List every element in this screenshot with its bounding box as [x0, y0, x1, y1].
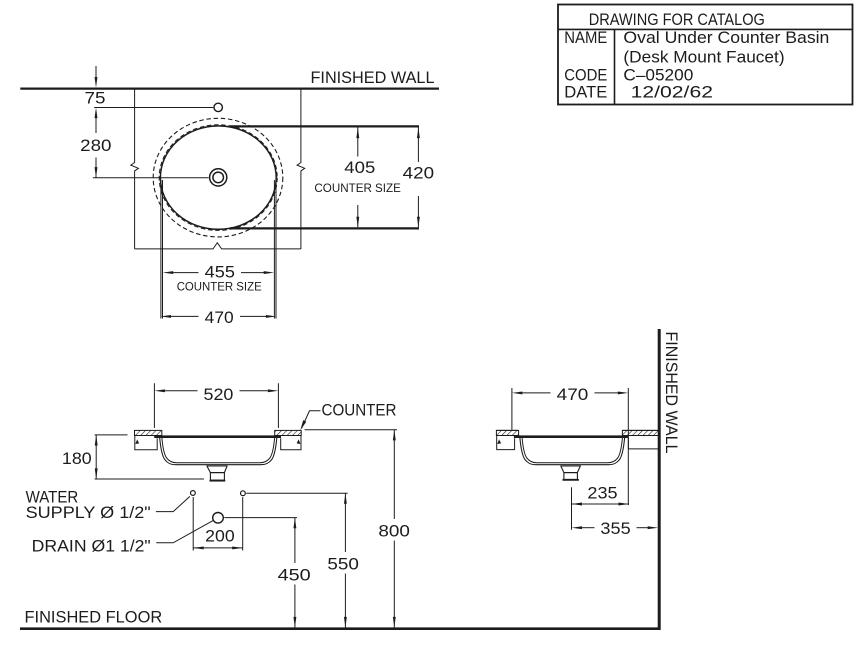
counter right section (side view) hatch [622, 430, 659, 435]
svg-text:SUPPLY Ø 1/2": SUPPLY Ø 1/2" [26, 504, 151, 522]
drain fitting body (side view) [564, 473, 578, 480]
svg-text:(Desk Mount Faucet): (Desk Mount Faucet) [623, 49, 784, 67]
svg-text:FINISHED WALL: FINISHED WALL [662, 332, 680, 454]
wall line (plan view, top) [20, 87, 439, 89]
counter outline left edge with break [131, 89, 139, 249]
svg-text:COUNTER SIZE: COUNTER SIZE [177, 282, 262, 294]
title block box [558, 5, 853, 105]
counter outline right edge with break [297, 89, 305, 249]
title block header divider [558, 28, 853, 30]
svg-text:200: 200 [205, 526, 235, 545]
dimension 420 [403, 128, 434, 228]
drain circle (plan) [210, 169, 227, 186]
dimension 470 (plan) [161, 308, 277, 327]
dimension 235 extension line [571, 487, 573, 530]
counter underside at wall (side view) [628, 438, 659, 449]
counter left section (front view) hatch [135, 430, 162, 435]
drain leader line [156, 521, 213, 543]
dimension 455 [163, 263, 275, 294]
svg-text:455: 455 [205, 263, 235, 282]
counter outline bottom edge with break [135, 243, 301, 249]
drain fitting body (front view) [210, 473, 224, 481]
svg-text:FINISHED FLOOR: FINISHED FLOOR [25, 609, 163, 627]
drain fitting collar (side view) [560, 466, 581, 473]
basin rim solid ellipse [160, 126, 276, 229]
dimension 470 (side) extension lines [511, 388, 513, 430]
svg-text:75: 75 [85, 89, 106, 108]
svg-text:Oval Under Counter Basin: Oval Under Counter Basin [623, 29, 829, 47]
svg-text:470: 470 [557, 385, 589, 404]
basin rim flange (front view) [154, 435, 281, 438]
dimension 180 extension lines [95, 434, 128, 436]
water supply hole left [191, 491, 196, 496]
faucet centre extension line [94, 107, 213, 109]
dimension 800 extension line [305, 429, 397, 431]
svg-text:520: 520 [204, 385, 234, 404]
counter left edge profile (front view) [135, 436, 157, 450]
svg-text:420: 420 [403, 164, 434, 183]
faucet hole circle [214, 103, 222, 111]
dimension 800 [378, 430, 410, 628]
counter top line (side view) [496, 429, 518, 431]
svg-text:DATE: DATE [564, 83, 607, 101]
dimension 550 extension line [246, 492, 347, 494]
dimension 520 extension lines [153, 383, 155, 428]
svg-text:C–05200: C–05200 [623, 67, 693, 85]
basin bowl outer wall (side view) [520, 438, 625, 465]
basin bowl outer wall (front view) [160, 438, 277, 465]
water supply hole right [241, 491, 246, 496]
svg-text:180: 180 [62, 449, 92, 468]
counter right section (front view) hatch [275, 430, 302, 435]
drain fitting collar (front view) [206, 466, 227, 473]
svg-text:COUNTER SIZE: COUNTER SIZE [314, 183, 401, 195]
basin bowl inner wall (front view) [162, 438, 275, 463]
svg-text:COUNTER: COUNTER [322, 402, 397, 420]
counter left section (side view) hatch [496, 430, 518, 435]
svg-text:800: 800 [378, 521, 410, 540]
dimension 355 [572, 519, 659, 538]
drain hole circle (front view) [213, 513, 224, 524]
svg-text:355: 355 [600, 519, 630, 538]
basin outer dashed ellipse (hidden edge) [153, 118, 283, 237]
dimension 405 [314, 128, 401, 228]
water supply leader line [156, 496, 190, 511]
left vertical extension lines (455/470) [160, 180, 162, 319]
counter right edge profile (front view) [281, 436, 301, 450]
basin bowl inner wall (side view) [522, 438, 622, 463]
right vertical extension lines (455/470) [273, 180, 275, 319]
svg-text:CODE: CODE [564, 67, 607, 85]
title block vertical divider [614, 29, 616, 104]
finished wall line (side view, right) [658, 329, 661, 630]
dimension 520 [154, 385, 278, 404]
basin rim flange (side view) [514, 435, 629, 438]
svg-text:450: 450 [278, 566, 311, 585]
dimension 450 extension line [224, 517, 297, 519]
counter leader line with arrow [302, 411, 321, 428]
top extension band (to 405/420 dims) [230, 125, 419, 127]
svg-text:550: 550 [327, 555, 359, 574]
svg-text:280: 280 [80, 136, 111, 155]
svg-text:12/02/62: 12/02/62 [631, 83, 713, 101]
counter cut-out dashed ellipse [159, 125, 277, 231]
dimension 75 [85, 66, 106, 108]
dimension 180 [62, 435, 98, 479]
dimension 470 (side) [512, 385, 628, 404]
svg-text:DRAWING FOR CATALOG: DRAWING FOR CATALOG [589, 11, 765, 29]
svg-text:235: 235 [587, 484, 617, 503]
svg-text:NAME: NAME [564, 29, 607, 47]
dimension 550 [327, 493, 359, 627]
svg-text:DRAIN Ø1 1/2": DRAIN Ø1 1/2" [32, 538, 151, 556]
drain centre extension line [93, 177, 209, 179]
dimension 235 [572, 484, 630, 506]
dimension 200 [193, 526, 243, 549]
counter front edge profile (side view) [497, 436, 515, 450]
dimension 450 [278, 518, 311, 628]
svg-text:470: 470 [205, 308, 234, 327]
floor line [20, 627, 661, 630]
dimension 200 extension lines [192, 497, 194, 551]
dimension 280 [80, 108, 111, 178]
svg-text:405: 405 [344, 158, 375, 177]
bottom extension band (to 405/420 dims) [230, 227, 419, 229]
svg-text:FINISHED WALL: FINISHED WALL [311, 69, 435, 87]
